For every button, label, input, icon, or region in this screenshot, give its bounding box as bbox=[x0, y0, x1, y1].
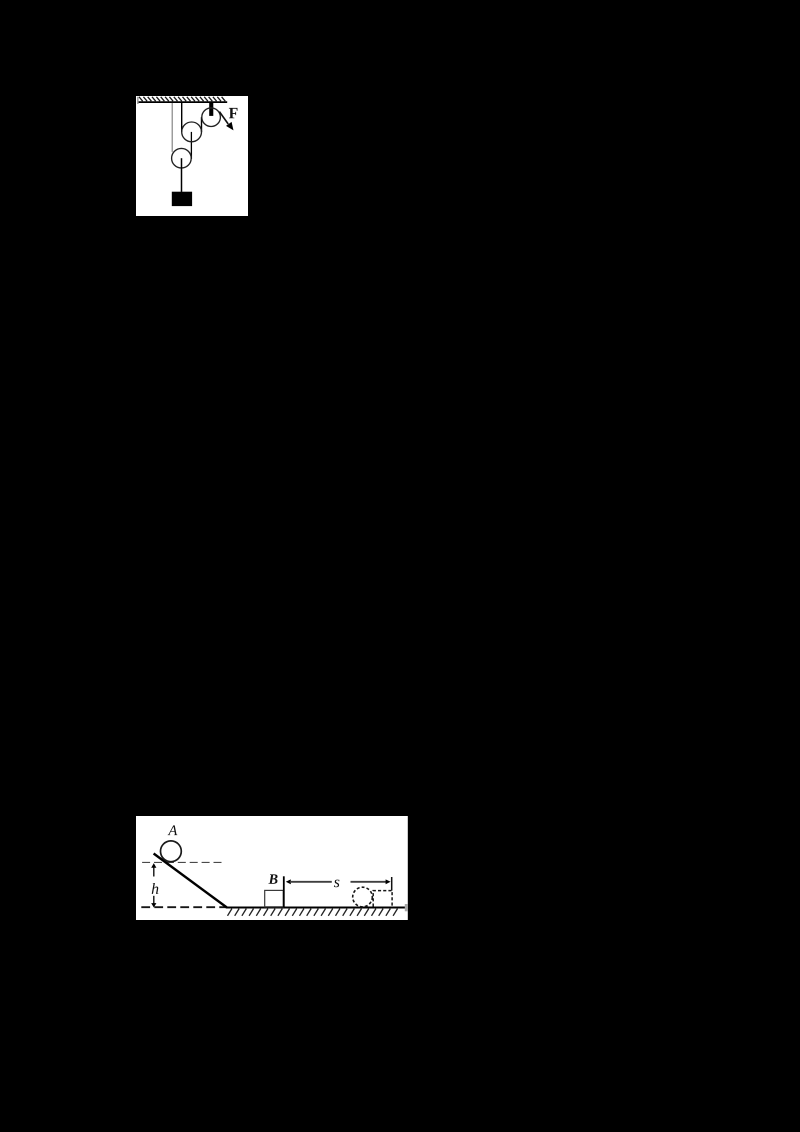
weight block bbox=[172, 191, 192, 205]
wire: rope from ceiling to middle pulley bbox=[180, 102, 182, 131]
dashed ground level line bbox=[141, 906, 226, 908]
figure 2: incline / ball / block panel bbox=[136, 816, 408, 920]
force F arrow line bbox=[219, 111, 228, 123]
ball A bbox=[161, 841, 182, 862]
ceiling left grey tick bbox=[137, 96, 138, 103]
label h backing bbox=[150, 877, 161, 895]
label A bbox=[168, 825, 178, 835]
label B bbox=[268, 874, 277, 883]
wire: left rope from ceiling to lower pulley bbox=[171, 102, 173, 151]
label s bbox=[334, 879, 340, 887]
dashed height level line bbox=[142, 861, 225, 863]
wire: rope lower pulley to weight bbox=[180, 158, 182, 192]
pulley hanger bar bbox=[209, 102, 213, 115]
left measurement post at B bbox=[283, 876, 285, 907]
s arrow shaft right segment bbox=[351, 881, 387, 883]
wire: rope middle pulley axle down to lower pulley bbox=[190, 131, 192, 158]
ground hatching bbox=[228, 908, 398, 915]
ground right grey end cap bbox=[405, 904, 408, 911]
force F arrowhead bbox=[226, 121, 233, 129]
dashed ball final position bbox=[353, 887, 373, 907]
h arrow shaft bbox=[153, 866, 155, 876]
incline bbox=[154, 853, 227, 907]
s arrow shaft left segment bbox=[290, 881, 332, 883]
lower pulley bbox=[171, 148, 191, 168]
middle pulley bbox=[181, 122, 201, 142]
right measurement post bbox=[391, 877, 393, 891]
h arrow bottom head bbox=[151, 903, 156, 907]
s arrow right head bbox=[386, 879, 391, 884]
figure 1: pulley system panel bbox=[136, 96, 249, 216]
h arrow top head bbox=[151, 863, 156, 868]
label F bbox=[229, 108, 238, 118]
label h bbox=[152, 883, 159, 894]
ground line bbox=[226, 906, 405, 908]
s arrow left head bbox=[286, 879, 291, 884]
block B bbox=[265, 890, 284, 906]
dashed block final position bbox=[373, 890, 392, 906]
wire: rope middle pulley to top pulley bbox=[200, 117, 202, 132]
ceiling line bbox=[138, 101, 227, 103]
top pulley bbox=[202, 107, 221, 126]
ceiling hatching bbox=[139, 96, 225, 100]
